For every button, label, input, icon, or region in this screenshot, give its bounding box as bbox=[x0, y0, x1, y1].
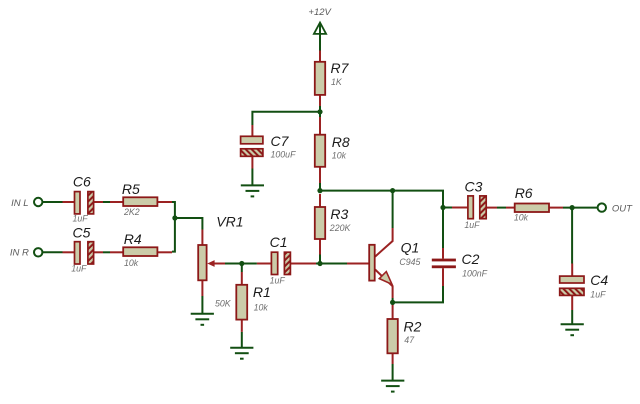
svg-text:10k: 10k bbox=[124, 258, 139, 268]
svg-text:Q1: Q1 bbox=[401, 240, 420, 256]
svg-text:R7: R7 bbox=[331, 60, 350, 76]
svg-text:R5: R5 bbox=[122, 181, 140, 197]
svg-text:C1: C1 bbox=[270, 234, 288, 250]
svg-text:50K: 50K bbox=[215, 299, 232, 309]
svg-text:R3: R3 bbox=[330, 206, 348, 222]
svg-text:R6: R6 bbox=[515, 185, 533, 201]
svg-text:10k: 10k bbox=[332, 150, 347, 160]
svg-text:IN R: IN R bbox=[10, 247, 29, 258]
svg-text:1uF: 1uF bbox=[73, 213, 89, 223]
svg-text:R2: R2 bbox=[404, 319, 422, 335]
svg-text:1uF: 1uF bbox=[71, 263, 87, 273]
svg-text:C945: C945 bbox=[399, 257, 420, 267]
svg-text:10k: 10k bbox=[254, 302, 269, 312]
svg-text:100nF: 100nF bbox=[462, 269, 488, 279]
svg-text:R4: R4 bbox=[124, 231, 142, 247]
svg-text:100uF: 100uF bbox=[271, 149, 297, 159]
svg-text:VR1: VR1 bbox=[216, 213, 243, 229]
svg-text:+12V: +12V bbox=[308, 7, 332, 18]
svg-text:C7: C7 bbox=[271, 133, 290, 149]
svg-text:1uF: 1uF bbox=[464, 220, 480, 230]
svg-text:C4: C4 bbox=[590, 272, 608, 288]
svg-text:47: 47 bbox=[404, 335, 415, 345]
svg-text:2K2: 2K2 bbox=[123, 207, 140, 217]
svg-text:IN L: IN L bbox=[11, 198, 28, 209]
svg-text:10k: 10k bbox=[514, 213, 529, 223]
svg-text:1K: 1K bbox=[331, 77, 343, 87]
svg-text:C5: C5 bbox=[73, 225, 91, 241]
svg-text:220K: 220K bbox=[329, 223, 352, 233]
svg-text:OUT: OUT bbox=[612, 203, 633, 214]
svg-text:R1: R1 bbox=[253, 284, 271, 300]
svg-text:R8: R8 bbox=[332, 134, 350, 150]
svg-text:1uF: 1uF bbox=[590, 290, 606, 300]
svg-text:1uF: 1uF bbox=[270, 276, 286, 286]
svg-text:C3: C3 bbox=[465, 179, 483, 195]
svg-text:C6: C6 bbox=[73, 174, 91, 190]
svg-text:C2: C2 bbox=[462, 251, 480, 267]
